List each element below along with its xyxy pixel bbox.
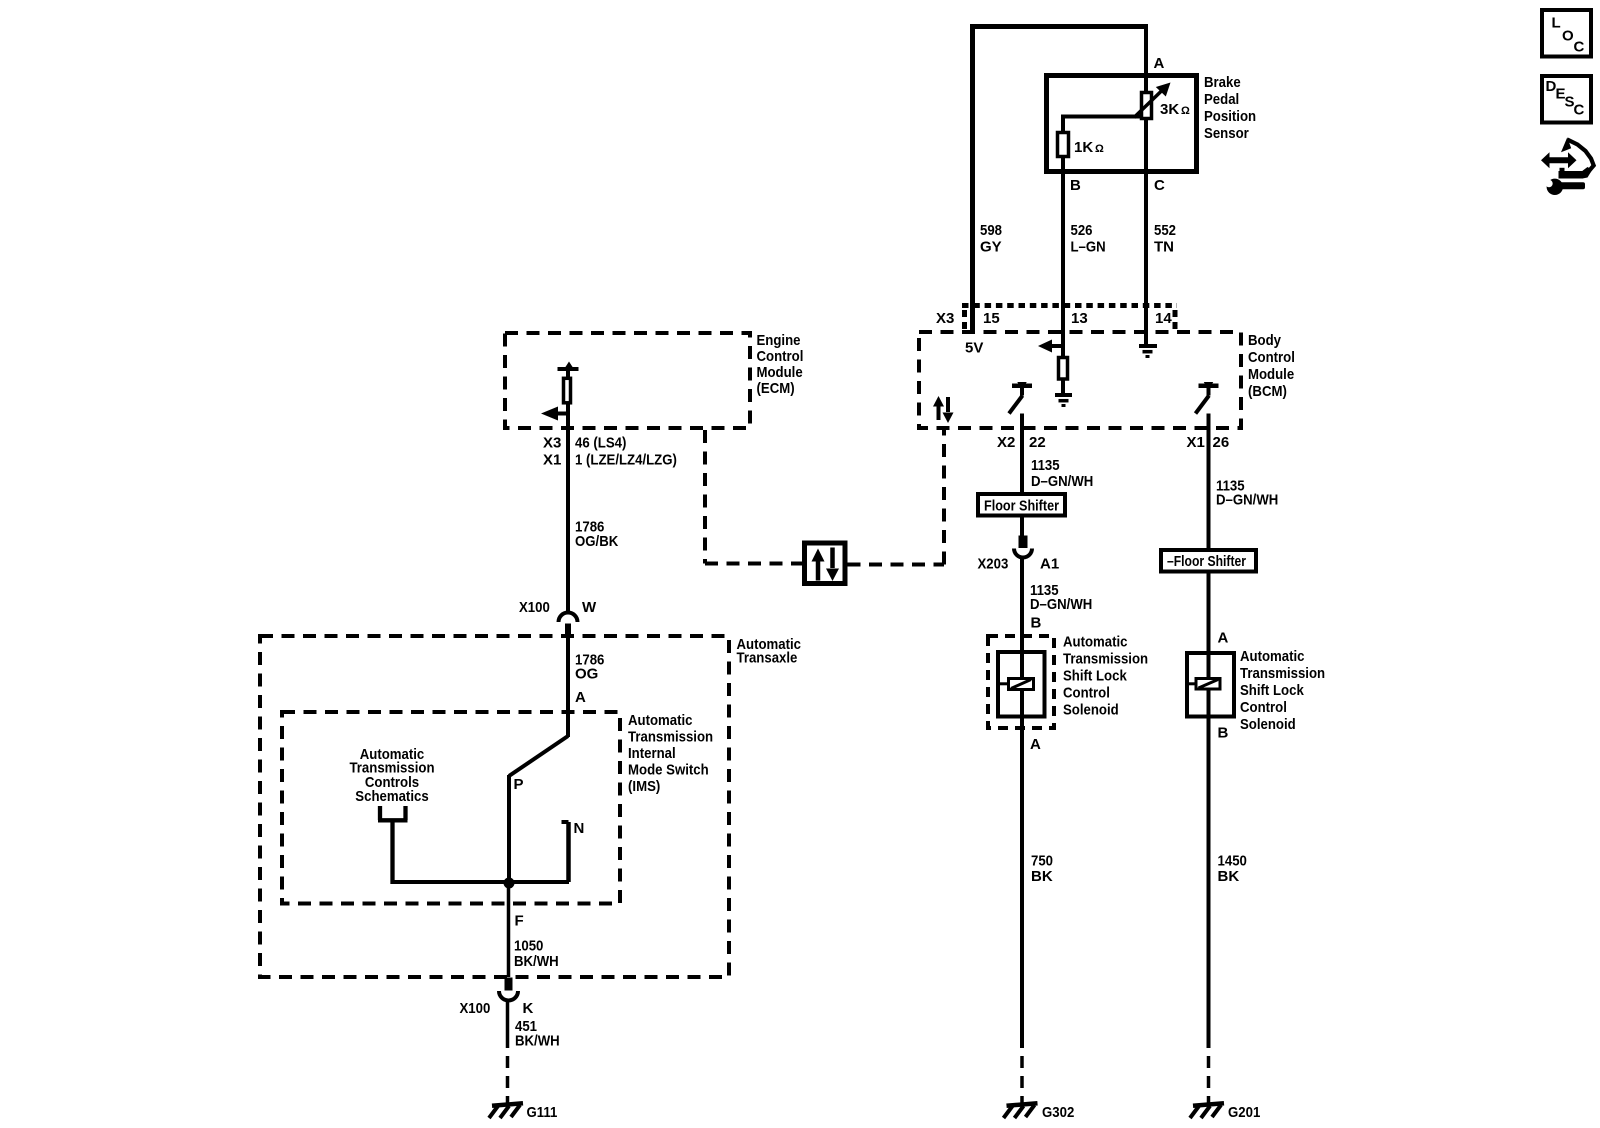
svg-text:15: 15 — [983, 310, 1000, 327]
svg-text:TN: TN — [1154, 239, 1174, 256]
svg-text:X100: X100 — [519, 599, 550, 616]
svg-text:Body: Body — [1248, 332, 1282, 349]
svg-text:Solenoid: Solenoid — [1240, 716, 1296, 733]
svg-text:A: A — [1218, 630, 1229, 647]
svg-text:C: C — [1154, 177, 1165, 194]
svg-text:Ω: Ω — [1181, 105, 1190, 117]
svg-text:598: 598 — [980, 222, 1002, 239]
svg-text:–Floor Shifter: –Floor Shifter — [1167, 553, 1246, 570]
svg-text:Position: Position — [1204, 108, 1256, 125]
svg-text:Automatic: Automatic — [628, 712, 693, 729]
svg-text:X1: X1 — [543, 452, 561, 469]
svg-text:X100: X100 — [460, 1000, 491, 1017]
svg-text:OG/BK: OG/BK — [575, 533, 618, 550]
svg-text:F: F — [515, 913, 524, 930]
svg-text:L: L — [1552, 15, 1561, 32]
svg-text:5V: 5V — [965, 340, 983, 357]
svg-text:552: 552 — [1154, 222, 1176, 239]
svg-text:B: B — [1218, 725, 1229, 742]
svg-text:Control: Control — [757, 348, 804, 365]
svg-text:Ω: Ω — [1095, 143, 1104, 155]
svg-text:G201: G201 — [1228, 1104, 1260, 1121]
svg-text:X203: X203 — [978, 556, 1009, 573]
svg-text:750: 750 — [1031, 853, 1053, 870]
svg-text:Engine: Engine — [757, 332, 801, 349]
svg-text:A: A — [1154, 55, 1165, 72]
svg-text:Transmission: Transmission — [628, 729, 713, 746]
svg-text:Transmission: Transmission — [1063, 651, 1148, 668]
svg-text:Module: Module — [1248, 366, 1294, 383]
svg-text:A: A — [1030, 736, 1041, 753]
svg-text:Mode Switch: Mode Switch — [628, 762, 709, 779]
svg-text:Control: Control — [1240, 699, 1287, 716]
svg-text:Transmission: Transmission — [1240, 665, 1325, 682]
svg-text:1K: 1K — [1074, 139, 1093, 156]
svg-text:X2: X2 — [997, 434, 1015, 451]
svg-text:1 (LZE/LZ4/LZG): 1 (LZE/LZ4/LZG) — [575, 452, 677, 469]
svg-text:526: 526 — [1071, 222, 1093, 239]
svg-text:C: C — [1574, 102, 1585, 119]
svg-text:A: A — [575, 689, 586, 706]
svg-text:26: 26 — [1213, 434, 1230, 451]
svg-text:(ECM): (ECM) — [757, 380, 795, 397]
svg-text:1050: 1050 — [514, 938, 543, 955]
svg-text:D–GN/WH: D–GN/WH — [1031, 473, 1093, 490]
svg-text:Schematics: Schematics — [355, 788, 428, 805]
svg-text:(BCM): (BCM) — [1248, 383, 1287, 400]
svg-text:Shift Lock: Shift Lock — [1240, 682, 1304, 699]
svg-text:A1: A1 — [1040, 556, 1059, 573]
svg-text:Control: Control — [1248, 349, 1295, 366]
svg-text:Module: Module — [757, 364, 803, 381]
svg-text:D–GN/WH: D–GN/WH — [1216, 492, 1278, 509]
svg-text:1450: 1450 — [1218, 853, 1247, 870]
svg-text:Automatic: Automatic — [1240, 648, 1305, 665]
svg-text:3K: 3K — [1160, 101, 1179, 118]
svg-text:Brake: Brake — [1204, 74, 1241, 91]
svg-text:X3: X3 — [936, 310, 954, 327]
svg-text:G111: G111 — [527, 1104, 558, 1121]
svg-text:1135: 1135 — [1031, 457, 1060, 474]
svg-text:Transaxle: Transaxle — [737, 650, 798, 667]
svg-text:46 (LS4): 46 (LS4) — [575, 435, 626, 452]
svg-text:Pedal: Pedal — [1204, 91, 1239, 108]
svg-text:Shift Lock: Shift Lock — [1063, 668, 1127, 685]
svg-text:14: 14 — [1155, 310, 1172, 327]
svg-text:D–GN/WH: D–GN/WH — [1030, 596, 1092, 613]
svg-text:K: K — [523, 1000, 534, 1017]
svg-text:G302: G302 — [1042, 1104, 1074, 1121]
svg-text:Floor Shifter: Floor Shifter — [984, 498, 1059, 515]
svg-text:BK: BK — [1031, 868, 1053, 885]
svg-text:BK/WH: BK/WH — [515, 1033, 560, 1050]
svg-text:X1: X1 — [1187, 434, 1205, 451]
svg-text:BK: BK — [1218, 868, 1240, 885]
svg-text:22: 22 — [1029, 434, 1046, 451]
svg-text:N: N — [574, 820, 585, 837]
svg-text:X3: X3 — [543, 435, 561, 452]
svg-text:O: O — [1562, 27, 1574, 44]
svg-text:Solenoid: Solenoid — [1063, 702, 1119, 719]
svg-text:P: P — [514, 776, 524, 793]
svg-text:Internal: Internal — [628, 745, 676, 762]
svg-text:BK/WH: BK/WH — [514, 953, 559, 970]
svg-text:Control: Control — [1063, 685, 1110, 702]
svg-text:B: B — [1031, 615, 1042, 632]
svg-text:OG: OG — [575, 666, 598, 683]
svg-text:Automatic: Automatic — [1063, 634, 1128, 651]
svg-text:W: W — [582, 599, 597, 616]
svg-text:L–GN: L–GN — [1071, 239, 1106, 256]
svg-text:(IMS): (IMS) — [628, 778, 660, 795]
svg-text:Sensor: Sensor — [1204, 125, 1249, 142]
svg-text:GY: GY — [980, 239, 1002, 256]
svg-text:C: C — [1574, 38, 1585, 55]
svg-text:B: B — [1070, 177, 1081, 194]
svg-text:13: 13 — [1071, 310, 1088, 327]
